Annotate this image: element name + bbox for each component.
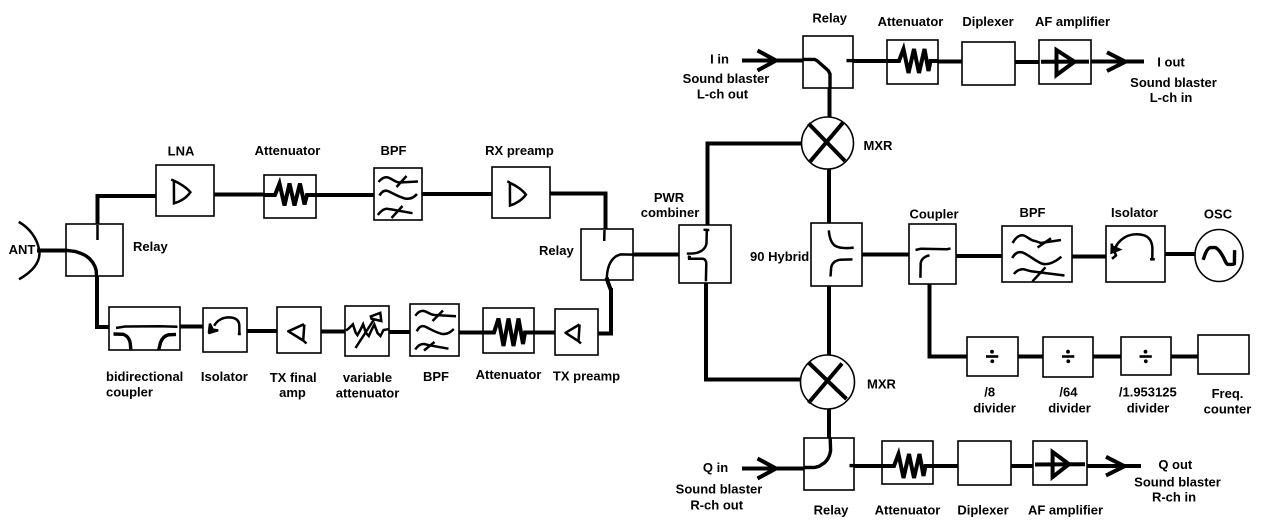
TX final amp box	[277, 307, 321, 353]
label TX BPF	[423, 369, 449, 384]
wire I relay to mixer MXR1	[828, 87, 832, 119]
LNA box	[156, 165, 214, 216]
label ANT	[9, 242, 36, 257]
arrow I out	[1089, 52, 1144, 71]
label Freq. counter	[1204, 386, 1252, 417]
svg-text:Sound blaster: Sound blaster	[676, 482, 763, 497]
TX BPF box	[410, 304, 459, 356]
TX attenuator box	[483, 308, 534, 353]
I AF amplifier triangle	[1041, 50, 1089, 75]
label /1.953125 divider	[1119, 385, 1177, 416]
label Q Diplexer	[957, 503, 1008, 518]
svg-text:OSC: OSC	[1204, 207, 1233, 222]
wire TX final amp to variable attenuator	[319, 330, 347, 334]
wire PWR combiner top to mixer MXR1	[708, 144, 804, 228]
90 Hybrid coupler curves	[829, 230, 854, 276]
svg-text:BPF: BPF	[1020, 205, 1046, 220]
wire bidirectional coupler to TX isolator	[178, 325, 205, 329]
coupler branch line	[920, 255, 929, 277]
wire TX BPF to TX attenuator	[457, 331, 485, 335]
antenna relay box	[66, 224, 123, 276]
label Q Relay	[814, 503, 849, 518]
label /64 divider	[1048, 385, 1091, 416]
I relay switch arm	[803, 59, 830, 88]
I diplexer box	[962, 42, 1015, 85]
wire LNA to RX attenuator	[212, 193, 266, 197]
Q attenuator resistor zigzag	[883, 454, 933, 478]
svg-text:I out: I out	[1157, 55, 1185, 70]
wire I attenuator to I diplexer	[936, 60, 964, 64]
label Sound blaster R-ch out	[676, 482, 763, 513]
svg-text:RX preamp: RX preamp	[485, 143, 554, 158]
OSC BPF box	[1002, 226, 1072, 282]
wire TX isolator to TX final amp	[245, 329, 279, 333]
svg-text:Attenuator: Attenuator	[875, 503, 941, 518]
RX preamp amp symbol	[507, 181, 526, 205]
I attenuator resistor zigzag	[888, 49, 938, 73]
coupler box	[909, 224, 956, 284]
svg-text:/1.953125: /1.953125	[1119, 385, 1177, 400]
PWR combiner splitter curves	[687, 230, 710, 281]
wire /1.953125 divider to Freq. counter	[1169, 355, 1200, 359]
svg-text:/64: /64	[1059, 385, 1078, 400]
TX isolator box	[203, 308, 247, 352]
svg-text:I in: I in	[710, 52, 729, 67]
svg-text:Relay: Relay	[133, 239, 168, 254]
RX BPF box	[374, 168, 422, 220]
svg-text:divider: divider	[973, 401, 1016, 416]
svg-text:divider: divider	[1127, 401, 1170, 416]
/8 divider box	[967, 337, 1018, 376]
arrow Q in	[742, 459, 807, 479]
/1.953125 divider division sign	[1140, 350, 1152, 363]
label I out	[1157, 55, 1185, 70]
label OSC BPF	[1020, 205, 1046, 220]
RX/TX relay contact stub	[603, 230, 606, 241]
/64 divider division sign	[1062, 350, 1074, 363]
wire mixer MXR2 to Q relay	[827, 409, 831, 441]
svg-text:90 Hybrid: 90 Hybrid	[750, 249, 809, 264]
label /8 divider	[973, 385, 1016, 416]
OSC sine wave	[1203, 248, 1234, 265]
label TX Attenuator	[476, 367, 542, 382]
label OSC	[1204, 207, 1233, 222]
svg-text:Diplexer: Diplexer	[962, 14, 1013, 29]
TX attenuator resistor zigzag	[484, 319, 534, 347]
svg-text:Relay: Relay	[814, 503, 849, 518]
label I Diplexer	[962, 14, 1013, 29]
TX preamp triangle	[566, 325, 582, 344]
label PWR combiner	[641, 190, 700, 220]
wire TX attenuator to TX preamp	[532, 331, 557, 335]
OSC isolator box	[1106, 226, 1165, 282]
wire TX preamp up to RX/TX relay	[596, 288, 611, 334]
RX/TX relay switch arm	[607, 254, 633, 290]
wire Q diplexer to Q AF amplifier	[1009, 464, 1035, 468]
Q attenuator box	[882, 441, 933, 484]
Q relay box	[804, 438, 854, 490]
label I Relay	[812, 11, 847, 26]
bidirectional coupler left branch	[114, 334, 131, 350]
svg-text:divider: divider	[1048, 401, 1091, 416]
svg-text:L-ch out: L-ch out	[697, 87, 749, 102]
label variable attenuator	[336, 370, 400, 401]
wire PWR combiner bottom to mixer MXR2	[706, 281, 802, 380]
svg-text:Attenuator: Attenuator	[476, 367, 542, 382]
svg-text:LNA: LNA	[168, 144, 195, 159]
wire Q attenuator to Q diplexer	[931, 464, 960, 468]
svg-text:Q in: Q in	[703, 460, 728, 475]
wire mixer MXR1 to 90 Hybrid	[827, 168, 831, 225]
label RX BPF	[381, 143, 407, 158]
TX BPF filter squiggles	[415, 311, 456, 351]
arrow I in	[742, 51, 805, 71]
TX preamp box	[555, 309, 598, 355]
label Q in	[703, 460, 728, 475]
svg-text:Attenuator: Attenuator	[878, 14, 944, 29]
label RX Attenuator	[255, 143, 321, 158]
bidirectional coupler box	[109, 307, 180, 350]
label Q out	[1158, 457, 1193, 472]
svg-text:amp: amp	[279, 385, 306, 400]
svg-text:Relay: Relay	[539, 243, 574, 258]
label Sound blaster R-ch in	[1134, 475, 1221, 505]
wire coupler to OSC BPF	[954, 254, 1004, 258]
svg-text:ANT: ANT	[9, 242, 36, 257]
wire /8 divider to /64 divider	[1016, 355, 1045, 359]
wire 90 Hybrid to mixer MXR2	[827, 284, 831, 357]
wire OSC isolator to OSC	[1163, 252, 1196, 256]
RX preamp box	[492, 167, 550, 218]
svg-text:Isolator: Isolator	[1111, 205, 1158, 220]
label 90 Hybrid	[750, 249, 809, 264]
wire RX BPF to RX preamp	[420, 192, 494, 196]
svg-text:attenuator: attenuator	[336, 386, 400, 401]
svg-text:bidirectional: bidirectional	[106, 369, 183, 384]
label RX preamp	[485, 143, 554, 158]
label RX/TX Relay	[539, 243, 574, 258]
label antenna Relay	[133, 239, 168, 254]
wire coupler bottom to /8 divider	[930, 282, 970, 357]
I attenuator box	[887, 40, 938, 84]
label TX Isolator	[201, 369, 248, 384]
label LNA	[168, 144, 195, 159]
antenna ANT arc	[19, 222, 40, 279]
svg-text:PWR: PWR	[654, 190, 685, 205]
bidirectional coupler through line	[116, 326, 178, 328]
wire I relay to I attenuator	[851, 59, 889, 63]
wire Q relay to Q attenuator	[852, 464, 884, 468]
label Coupler	[909, 207, 958, 222]
mixer MXR1 X	[809, 122, 846, 162]
OSC BPF filter squiggles	[1012, 235, 1064, 281]
svg-text:variable: variable	[343, 370, 392, 385]
wire RX/TX relay to PWR combiner	[631, 253, 681, 257]
svg-text:Isolator: Isolator	[201, 369, 248, 384]
svg-text:R-ch in: R-ch in	[1152, 490, 1196, 505]
Q relay switch arm	[804, 439, 831, 468]
label TX final amp	[270, 370, 317, 400]
RX attenuator box	[264, 175, 316, 218]
svg-text:MXR: MXR	[867, 377, 897, 392]
I relay contact stub	[847, 59, 854, 62]
Q AF amplifier box	[1033, 441, 1087, 485]
mixer MXR1 circle	[802, 117, 854, 169]
antenna relay switch arm	[66, 250, 97, 276]
svg-text:counter: counter	[1204, 402, 1252, 417]
Q relay contact stub	[850, 464, 855, 467]
svg-text:Q out: Q out	[1158, 457, 1193, 472]
label I in	[710, 52, 729, 67]
wire OSC BPF to OSC isolator	[1070, 255, 1108, 259]
coupler through line	[916, 249, 951, 251]
wire RX attenuator to RX BPF	[314, 193, 376, 197]
svg-text:L-ch in: L-ch in	[1150, 90, 1193, 105]
label I Attenuator	[878, 14, 944, 29]
svg-text:TX preamp: TX preamp	[553, 369, 620, 384]
svg-text:BPF: BPF	[423, 369, 449, 384]
svg-text:MXR: MXR	[864, 138, 894, 153]
Q AF amplifier triangle	[1035, 452, 1085, 477]
svg-text:Freq.: Freq.	[1212, 386, 1244, 401]
LNA amp symbol	[171, 180, 190, 204]
TX final amp triangle	[288, 324, 306, 343]
I relay box	[803, 36, 853, 88]
Q diplexer box	[958, 441, 1011, 485]
RX BPF filter squiggles	[378, 176, 418, 218]
svg-text:coupler: coupler	[106, 385, 153, 400]
variable attenuator zigzag with arrow	[346, 313, 389, 348]
wire antenna relay top to LNA	[98, 196, 159, 226]
label MXR bottom	[867, 377, 897, 392]
/8 divider division sign	[986, 350, 998, 363]
label bidirectional coupler	[106, 369, 183, 400]
I AF amplifier box	[1039, 40, 1091, 84]
svg-text:TX final: TX final	[270, 370, 317, 385]
wire antenna relay bottom to bidirectional coupler	[97, 274, 118, 327]
svg-text:BPF: BPF	[381, 143, 407, 158]
svg-text:AF amplifier: AF amplifier	[1035, 14, 1110, 29]
svg-text:R-ch out: R-ch out	[690, 498, 743, 513]
BOXES	[66, 36, 1249, 490]
90 Hybrid box	[811, 223, 862, 286]
PWR combiner box	[679, 225, 731, 283]
svg-text:Sound blaster: Sound blaster	[1134, 475, 1221, 490]
bidirectional coupler right branch	[159, 334, 176, 349]
wire 90 Hybrid to coupler	[860, 253, 911, 257]
RX/TX relay box	[581, 229, 633, 280]
antenna relay contact stub	[96, 225, 99, 240]
svg-text:AF amplifier: AF amplifier	[1028, 503, 1103, 518]
wire variable attenuator to TX BPF	[387, 330, 412, 334]
OSC circle	[1195, 230, 1243, 282]
label TX preamp	[553, 369, 620, 384]
svg-text:Diplexer: Diplexer	[957, 503, 1008, 518]
mixer MXR2 X	[809, 363, 847, 404]
svg-text:Sound blaster: Sound blaster	[1130, 75, 1217, 90]
wire RX preamp to RX/TX relay	[548, 194, 606, 232]
variable attenuator box	[345, 306, 389, 356]
svg-text:combiner: combiner	[641, 205, 700, 220]
wire /64 divider to /1.953125 divider	[1091, 355, 1123, 359]
mixer MXR2 circle	[801, 355, 855, 409]
svg-text:Attenuator: Attenuator	[255, 143, 321, 158]
/1.953125 divider box	[1121, 337, 1171, 375]
svg-text:Relay: Relay	[812, 11, 847, 26]
label OSC Isolator	[1111, 205, 1158, 220]
wire ANT to antenna relay	[37, 249, 68, 253]
label I AF amplifier	[1035, 14, 1110, 29]
/64 divider box	[1043, 337, 1093, 377]
svg-text:Sound blaster: Sound blaster	[683, 71, 770, 86]
arrow Q out	[1085, 457, 1141, 476]
label Q AF amplifier	[1028, 503, 1103, 518]
svg-text:Coupler: Coupler	[909, 207, 958, 222]
RX attenuator resistor zigzag	[265, 184, 316, 206]
label MXR top	[864, 138, 894, 153]
OSC isolator arrow arc	[1112, 234, 1155, 259]
TX isolator arrow arc	[208, 317, 241, 334]
label Sound blaster L-ch in	[1130, 75, 1217, 105]
wire I diplexer to I AF amplifier	[1013, 60, 1041, 64]
Freq. counter box	[1198, 335, 1249, 374]
svg-text:/8: /8	[984, 385, 995, 400]
label Sound blaster L-ch out	[683, 71, 770, 102]
label Q Attenuator	[875, 503, 941, 518]
